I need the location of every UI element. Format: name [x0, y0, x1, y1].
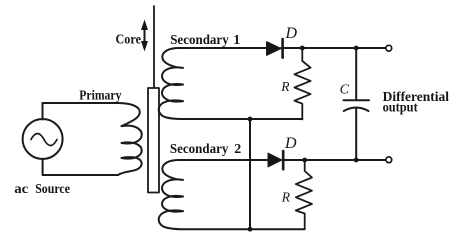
secondary winding 2 with top lead to diode and bottom rail [159, 160, 305, 229]
junction dot capacitor top [354, 46, 359, 51]
svg-text:2: 2 [234, 142, 241, 157]
center tap wire [249, 119, 251, 229]
junction dot R1 top [300, 46, 305, 51]
capacitor C top wire [355, 48, 357, 100]
resistor R1 [294, 48, 310, 120]
svg-text:1: 1 [233, 33, 240, 48]
svg-text:Secondary: Secondary [170, 142, 229, 157]
core rectangle [148, 88, 159, 193]
junction dot secondary1 bottom / center tap [248, 117, 253, 122]
capacitor C flat plate [344, 99, 370, 101]
core rod [153, 6, 155, 88]
svg-text:Secondary: Secondary [170, 33, 229, 48]
capacitor C curved plate [344, 108, 369, 112]
output terminal 1 [386, 45, 392, 51]
wire top rail from diode to output terminal [281, 47, 386, 49]
core motion double arrow [141, 20, 148, 52]
svg-text:output: output [383, 101, 418, 116]
capacitor C bottom wire [355, 108, 357, 160]
svg-text:ac: ac [14, 182, 28, 197]
output terminal 2 [386, 157, 392, 163]
svg-text:C: C [340, 82, 350, 97]
svg-text:Primary: Primary [79, 88, 121, 103]
svg-text:D: D [284, 135, 297, 152]
svg-text:Source: Source [35, 182, 70, 197]
resistor R2 [296, 160, 312, 229]
svg-text:R: R [281, 190, 291, 205]
svg-text:R: R [280, 79, 290, 94]
wire second rail from diode to output terminal [283, 159, 387, 161]
svg-text:D: D [285, 25, 298, 42]
primary winding with leads [43, 103, 142, 175]
junction dot capacitor bottom [354, 158, 359, 163]
ac source circle [23, 119, 63, 159]
junction dot R2 top [302, 158, 307, 163]
diode D2 [268, 151, 283, 169]
svg-text:Core: Core [116, 33, 142, 48]
ac source sine [31, 134, 57, 146]
secondary winding 1 with top lead to diode and bottom rail [159, 48, 303, 119]
junction dot secondary2 bottom / center tap [248, 227, 253, 232]
diode D1 [267, 39, 283, 58]
